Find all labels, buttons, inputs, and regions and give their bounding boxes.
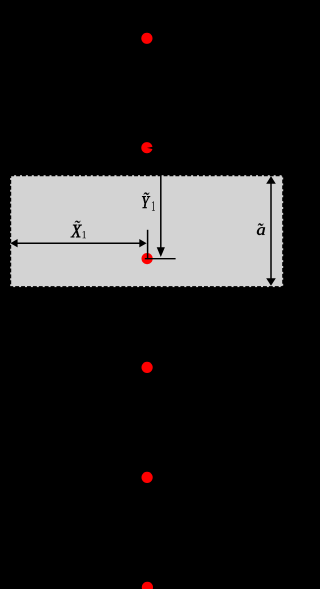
- dimension arrow X1 (horizontal double arrow): [16, 242, 141, 244]
- mass point M2 (second red dot): [141, 142, 152, 153]
- plate (gray rectangle with dashed border): [10, 175, 283, 287]
- mass point M6 (bottom red dot, clipped): [142, 582, 153, 589]
- label X1: [75, 221, 81, 223]
- dimension arrow Y1 (vertical, pointing down): [160, 171, 162, 249]
- mass point M4 (red dot): [142, 362, 153, 373]
- horizontal reference line at M3: [145, 258, 176, 260]
- mass point M5 (red dot): [142, 472, 153, 483]
- label Y1: [144, 192, 150, 194]
- short vertical reference line at M3: [147, 230, 149, 259]
- mass point M1 (top red dot): [141, 33, 152, 44]
- leader arrowhead overlapping M2: [147, 147, 154, 150]
- dimension arrow a (vertical double arrow at right): [270, 183, 272, 280]
- label a: [258, 223, 263, 225]
- mass point M3 (red dot on plate): [142, 253, 153, 264]
